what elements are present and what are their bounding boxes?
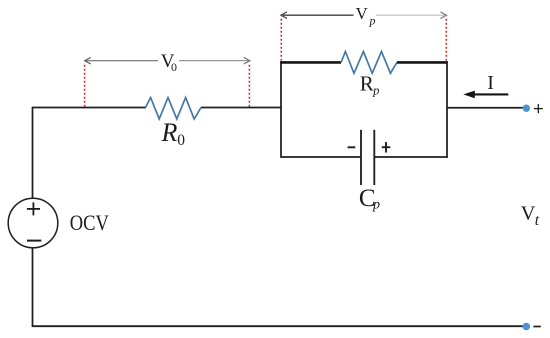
svg-text:V: V (356, 4, 368, 23)
capacitor polarity plus (382, 142, 391, 152)
wire: left vertical upper segment (32, 108, 34, 199)
svg-text:0: 0 (177, 132, 185, 149)
svg-text:t: t (535, 212, 540, 229)
wire: RC-network left vertical (280, 61, 282, 158)
wire: top branch right (Rp to corner) (397, 61, 448, 64)
svg-text:p: p (372, 198, 380, 213)
label I (487, 72, 494, 94)
wire: bottom horizontal (32, 325, 523, 327)
label Cp (359, 185, 380, 213)
wire: RC-network right vertical (446, 61, 448, 158)
dashed guide line Vp right (445, 19, 447, 61)
resistor R0 (146, 98, 202, 120)
svg-text:R: R (360, 72, 374, 96)
svg-text:I: I (487, 72, 494, 94)
terminal node negative (blue dot) (523, 323, 531, 331)
annotation Vp: measurement arrow left segment (281, 12, 354, 19)
resistor Rp (341, 52, 397, 74)
label + (positive terminal) (534, 104, 543, 113)
svg-text:p: p (369, 14, 376, 28)
label Vt (521, 203, 540, 229)
wire: bottom branch left (to Cp) (281, 156, 361, 158)
wire: top horizontal from left corner to R0 (32, 107, 146, 109)
annotation V0: measurement arrow right segment (179, 57, 250, 64)
wire: bottom branch right (Cp to corner) (375, 156, 448, 158)
label Rp (360, 72, 380, 98)
annotation V0: measurement arrow left segment (85, 57, 158, 64)
voltage source OCV (8, 198, 58, 248)
dashed guide line V0 right (248, 65, 250, 107)
wire: left vertical lower segment (32, 248, 34, 326)
dashed guide line V0 left (84, 65, 86, 107)
capacitor Cp (361, 130, 374, 185)
label OCV (70, 210, 109, 235)
svg-text:V: V (521, 203, 536, 225)
svg-text:0: 0 (171, 60, 177, 74)
current arrow I (463, 91, 508, 99)
terminal node positive (blue dot) (523, 105, 530, 112)
wire: right horizontal to positive terminal (447, 107, 523, 109)
svg-text:OCV: OCV (70, 210, 109, 235)
wire: R0 to RC-network (201, 107, 282, 109)
capacitor polarity minus (348, 146, 356, 148)
label - (negative terminal) (533, 326, 540, 328)
label R0 (161, 118, 186, 149)
label V0 (161, 51, 177, 74)
wire: top branch left (to Rp) (280, 61, 341, 64)
svg-text:p: p (372, 84, 379, 98)
label Vp (356, 4, 376, 27)
svg-text:R: R (161, 118, 178, 147)
dashed guide line Vp left (280, 19, 282, 61)
annotation Vp: measurement arrow right segment (376, 12, 447, 19)
